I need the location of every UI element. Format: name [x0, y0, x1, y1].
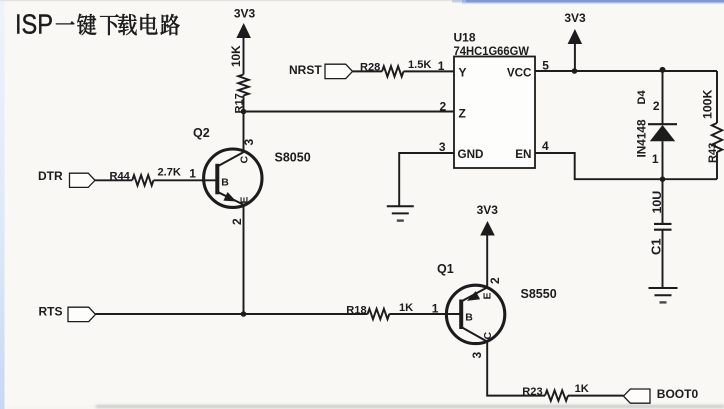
- svg-text:E: E: [238, 197, 250, 204]
- svg-text:2: 2: [488, 277, 502, 284]
- power symbol 3V3 (Q1 emitter): [477, 203, 499, 288]
- top-right blue video bar: [462, 0, 724, 3]
- ground symbol (U18 GND): [387, 205, 414, 207]
- resistor R23 1K: [522, 383, 588, 401]
- svg-text:U18: U18: [454, 31, 476, 45]
- bottom video artifact smudge: [96, 405, 724, 408]
- junction dot diode top: [660, 67, 666, 73]
- svg-text:3V3: 3V3: [477, 203, 499, 217]
- svg-text:R44: R44: [110, 171, 131, 183]
- svg-text:D4: D4: [636, 89, 648, 104]
- svg-text:IN4148: IN4148: [634, 119, 648, 157]
- op-amp U18 74HC1G66GW designator: [454, 31, 530, 59]
- wire VCC corner down to R43: [716, 71, 718, 123]
- wire NRST to R28: [353, 70, 383, 72]
- svg-text:1: 1: [438, 59, 445, 73]
- junction dot 3V3/VCC: [572, 68, 578, 74]
- wire diode bottom: [662, 141, 664, 179]
- svg-text:1K: 1K: [399, 302, 413, 314]
- resistor R28 1.5K: [360, 59, 431, 76]
- svg-text:Y: Y: [459, 66, 467, 80]
- wire R28 to U18 pin 1: [404, 70, 455, 72]
- svg-text:4: 4: [542, 139, 549, 153]
- svg-text:1: 1: [652, 152, 659, 166]
- svg-text:1K: 1K: [575, 383, 589, 395]
- wire R44 to Q2 base: [154, 179, 218, 181]
- wire DTR to R44: [95, 179, 132, 181]
- svg-text:EN: EN: [515, 148, 531, 161]
- resistor R43 100K (vertical): [701, 89, 723, 163]
- port RTS connector: [68, 307, 96, 321]
- wire R43 to EN net: [716, 152, 718, 179]
- svg-text:3V3: 3V3: [564, 11, 586, 25]
- resistor R44 2.7K: [110, 167, 181, 186]
- wire Q1 collector down: [487, 342, 545, 396]
- wire RTS net: [96, 313, 368, 315]
- wire Z net (node A to U18 pin 2): [244, 111, 455, 113]
- svg-text:R18: R18: [346, 304, 366, 316]
- svg-text:B: B: [465, 312, 473, 324]
- svg-text:1: 1: [189, 166, 196, 180]
- wire R23 to BOOT0: [568, 395, 624, 397]
- resistor R17 10K (vertical): [229, 45, 249, 114]
- svg-text:B: B: [221, 177, 229, 189]
- wire diode top: [662, 70, 664, 124]
- diode D4 symbol: [648, 124, 677, 141]
- svg-text:BOOT0: BOOT0: [657, 387, 699, 401]
- IC U18 body: [454, 57, 535, 169]
- power symbol 3V3 (top of R17): [234, 7, 256, 75]
- svg-text:2: 2: [230, 218, 244, 225]
- ground symbol (C1): [649, 287, 678, 289]
- capacitor C1 10U: [648, 191, 671, 255]
- wire R18 to Q1 base: [389, 313, 461, 315]
- junction dot diode bottom / C1: [660, 176, 666, 182]
- wire R17 to node A: [243, 96, 245, 112]
- svg-text:100K: 100K: [701, 89, 715, 119]
- svg-text:1: 1: [432, 302, 439, 316]
- transistor Q1 S8550 (PNP): [446, 285, 504, 343]
- port NRST connector: [325, 64, 353, 78]
- svg-text:S8050: S8050: [275, 151, 311, 165]
- wire EN net to C1: [662, 179, 664, 224]
- svg-text:C: C: [238, 156, 250, 164]
- svg-text:C: C: [482, 332, 494, 340]
- svg-text:2: 2: [653, 99, 660, 113]
- svg-text:Z: Z: [459, 107, 466, 121]
- svg-text:10K: 10K: [229, 45, 243, 67]
- svg-text:E: E: [482, 292, 494, 299]
- svg-text:C1: C1: [648, 238, 663, 255]
- diode D4 IN4148 labels: [634, 89, 648, 157]
- wire EN net (U18 pin4 down and right): [535, 153, 717, 179]
- node B junction (RTS / Q2 emitter): [241, 311, 247, 317]
- svg-text:VCC: VCC: [507, 67, 532, 80]
- wire Q2 emitter down to RTS net: [243, 205, 245, 314]
- svg-text:3: 3: [242, 139, 256, 146]
- node A junction (R17 / Z-wire / Q2 collector): [241, 109, 247, 115]
- wire VCC net (U18 pin5 to top-right corner): [535, 70, 717, 72]
- svg-text:3: 3: [470, 352, 484, 359]
- wire node A to Q2 collector: [243, 112, 245, 153]
- wire U18 GND pin to ground: [399, 153, 454, 206]
- svg-text:3V3: 3V3: [234, 7, 256, 21]
- svg-text:R28: R28: [360, 62, 380, 74]
- svg-text:R23: R23: [522, 386, 542, 398]
- wire C1 to ground: [662, 230, 664, 288]
- svg-text:DTR: DTR: [38, 169, 63, 183]
- svg-text:Q1: Q1: [437, 262, 454, 276]
- resistor R18 1K: [346, 302, 413, 319]
- svg-text:S8550: S8550: [521, 287, 557, 301]
- title text "ISP一键下载电路": [15, 9, 180, 40]
- top edge hairline: [0, 0, 724, 1]
- port DTR connector: [70, 173, 96, 187]
- port BOOT0 connector: [624, 389, 651, 403]
- svg-text:RTS: RTS: [39, 304, 63, 318]
- svg-text:Q2: Q2: [193, 126, 210, 140]
- svg-text:ISP: ISP: [15, 9, 53, 40]
- svg-text:1.5K: 1.5K: [408, 59, 431, 71]
- power symbol 3V3 (VCC net): [564, 11, 586, 71]
- svg-text:10U: 10U: [650, 191, 664, 214]
- transistor Q2 S8050 (NPN): [204, 149, 262, 207]
- svg-text:GND: GND: [458, 148, 484, 161]
- svg-text:2.7K: 2.7K: [158, 167, 181, 179]
- svg-text:2: 2: [440, 99, 447, 113]
- svg-text:NRST: NRST: [289, 63, 322, 77]
